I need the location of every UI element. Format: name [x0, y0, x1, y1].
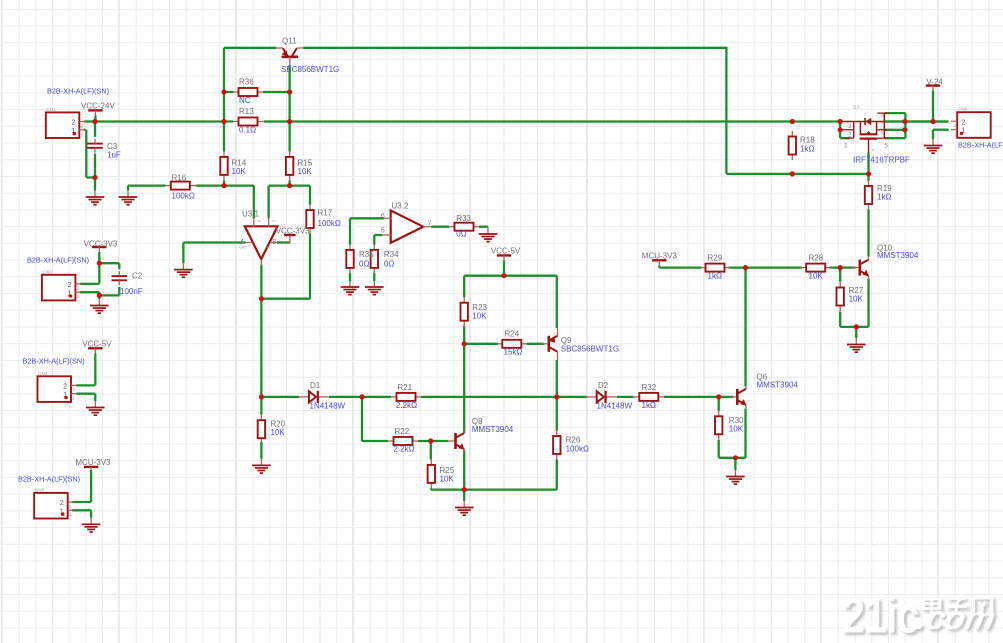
svg-text:1: 1 [81, 132, 84, 138]
svg-text:IRF7416TRPBF: IRF7416TRPBF [853, 156, 910, 165]
svg-text:5: 5 [381, 227, 385, 234]
svg-text:2: 2 [63, 384, 67, 391]
svg-text:0Ω: 0Ω [384, 259, 394, 268]
svg-text:2: 2 [81, 123, 84, 129]
svg-text:V-24: V-24 [926, 77, 943, 86]
svg-text:R33: R33 [456, 214, 471, 223]
svg-text:B2B-XH-A(LF)(SN): B2B-XH-A(LF)(SN) [27, 256, 89, 265]
svg-text:7: 7 [428, 221, 432, 228]
svg-text:R36: R36 [239, 78, 254, 87]
svg-text:2.2kΩ: 2.2kΩ [396, 401, 417, 410]
svg-text:4: 4 [872, 148, 875, 153]
svg-text:B2B-XH-A(LF)(SN): B2B-XH-A(LF)(SN) [18, 475, 80, 484]
svg-text:1: 1 [77, 294, 80, 300]
svg-text:R28: R28 [809, 253, 824, 262]
svg-text:3: 3 [257, 220, 262, 223]
svg-text:6: 6 [880, 130, 883, 135]
svg-text:+V: +V [266, 245, 271, 249]
svg-text:R24: R24 [505, 330, 520, 339]
svg-text:0.1Ω: 0.1Ω [239, 125, 256, 134]
svg-text:MMST3904: MMST3904 [472, 425, 514, 434]
svg-text:1kΩ: 1kΩ [708, 271, 722, 280]
svg-text:NC: NC [239, 96, 251, 105]
svg-text:R17: R17 [318, 209, 333, 218]
svg-text:CN6: CN6 [958, 107, 968, 113]
svg-text:0Ω: 0Ω [456, 230, 466, 239]
svg-text:1: 1 [72, 396, 75, 402]
svg-text:1: 1 [954, 131, 957, 137]
svg-text:21ic: 21ic [842, 592, 919, 643]
svg-text:C2: C2 [132, 272, 143, 281]
svg-text:VCC-5V: VCC-5V [82, 339, 112, 348]
svg-text:CN3: CN3 [42, 269, 52, 275]
svg-text:1: 1 [69, 512, 72, 518]
svg-text:VCC-3V3: VCC-3V3 [84, 239, 118, 248]
svg-text:100kΩ: 100kΩ [318, 219, 341, 228]
svg-text:R21: R21 [398, 383, 413, 392]
svg-text:100nF: 100nF [120, 287, 143, 296]
svg-text:MMST3904: MMST3904 [757, 380, 799, 389]
svg-text:2: 2 [954, 123, 957, 129]
svg-text:SBC856BWT1G: SBC856BWT1G [561, 345, 619, 354]
svg-text:2.2kΩ: 2.2kΩ [394, 445, 415, 454]
svg-text:B2B-XH-A(LF)(SN): B2B-XH-A(LF)(SN) [23, 356, 85, 365]
svg-text:R18: R18 [800, 136, 815, 145]
svg-text:B2B-XH-A(LF): B2B-XH-A(LF) [958, 141, 1003, 150]
svg-text:10K: 10K [849, 295, 864, 304]
svg-text:U3.2: U3.2 [392, 202, 409, 211]
svg-text:R22: R22 [395, 427, 410, 436]
svg-text:C3: C3 [107, 142, 118, 151]
svg-text:100kΩ: 100kΩ [172, 192, 195, 201]
svg-text:1uF: 1uF [107, 151, 121, 160]
svg-text:1kΩ: 1kΩ [877, 193, 891, 202]
svg-text:1: 1 [844, 143, 848, 149]
svg-text:VCC-5V: VCC-5V [491, 247, 521, 256]
svg-text:R35: R35 [359, 250, 374, 259]
svg-text:Q11: Q11 [282, 37, 297, 46]
svg-text:CN4: CN4 [38, 371, 48, 377]
svg-text:1N4148W: 1N4148W [310, 401, 346, 410]
svg-text:2: 2 [71, 120, 75, 127]
svg-text:Q3: Q3 [853, 104, 860, 110]
svg-text:0Ω: 0Ω [359, 259, 369, 268]
svg-text:2: 2 [67, 282, 71, 289]
svg-text:GND: GND [239, 245, 247, 249]
svg-text:2: 2 [72, 387, 75, 393]
svg-text:2: 2 [962, 119, 966, 126]
svg-text:R32: R32 [642, 383, 657, 392]
svg-text:B2B-XH-A(LF)(SN): B2B-XH-A(LF)(SN) [47, 87, 109, 96]
svg-text:2: 2 [60, 500, 64, 507]
svg-text:VCC-3V3: VCC-3V3 [276, 227, 310, 236]
svg-text:6: 6 [381, 213, 385, 220]
svg-text:R26: R26 [566, 436, 581, 445]
svg-text:8: 8 [880, 113, 883, 118]
svg-text:D2: D2 [598, 381, 609, 390]
svg-text:100kΩ: 100kΩ [566, 444, 589, 453]
svg-text:MCU-3V3: MCU-3V3 [75, 458, 111, 467]
svg-text:CN5: CN5 [35, 487, 45, 493]
svg-text:2: 2 [271, 220, 276, 223]
svg-text:10K: 10K [472, 311, 487, 320]
svg-text:10K: 10K [729, 424, 744, 433]
svg-text:5: 5 [885, 143, 889, 149]
svg-text:2: 2 [77, 286, 80, 292]
svg-text:CN1: CN1 [46, 107, 56, 113]
svg-text:U3.1: U3.1 [242, 210, 259, 219]
svg-text:D1: D1 [310, 381, 321, 390]
svg-text:8: 8 [272, 239, 276, 246]
svg-text:1kΩ: 1kΩ [642, 401, 656, 410]
svg-text:10K: 10K [270, 428, 285, 437]
svg-text:1kΩ: 1kΩ [800, 145, 814, 154]
svg-text:10K: 10K [232, 167, 247, 176]
svg-text:15kΩ: 15kΩ [504, 348, 523, 357]
svg-text:2: 2 [69, 504, 72, 510]
svg-text:R29: R29 [708, 253, 723, 262]
svg-text:1N4148W: 1N4148W [597, 401, 633, 410]
svg-text:R16: R16 [172, 173, 187, 182]
svg-text:R13: R13 [239, 107, 254, 116]
svg-text:10K: 10K [440, 474, 455, 483]
svg-text:MMST3904: MMST3904 [877, 251, 919, 260]
svg-text:MCU-3V3: MCU-3V3 [642, 252, 678, 261]
svg-text:VCC-24V: VCC-24V [81, 101, 115, 110]
svg-text:10K: 10K [298, 167, 313, 176]
svg-text:10K: 10K [809, 271, 824, 280]
svg-text:R34: R34 [384, 250, 399, 259]
svg-text:SBC856BWT1G: SBC856BWT1G [281, 65, 339, 74]
